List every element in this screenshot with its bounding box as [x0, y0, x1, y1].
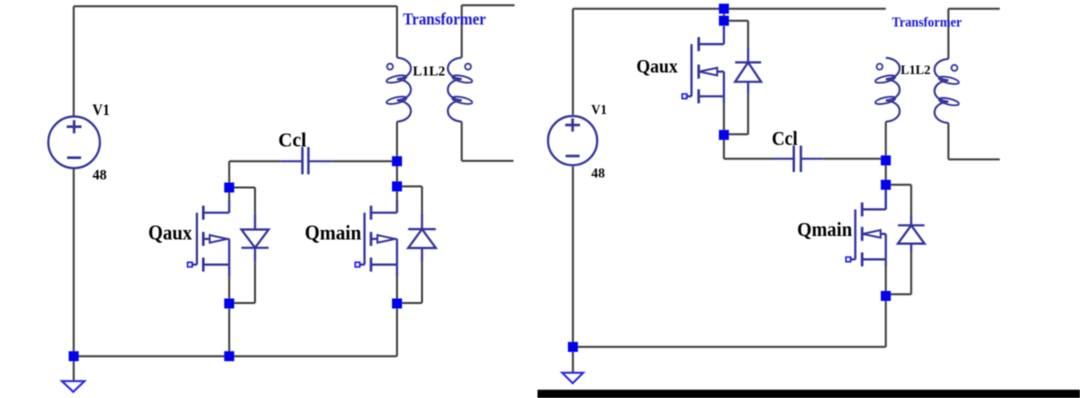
svg-text:L1L2: L1L2 [901, 62, 931, 77]
svg-text:Ccl: Ccl [278, 129, 307, 151]
svg-text:48: 48 [93, 168, 107, 184]
svg-text:Transformer: Transformer [403, 10, 486, 29]
svg-text:V1: V1 [92, 102, 109, 119]
svg-text:Qmain: Qmain [797, 219, 852, 241]
svg-text:L1L2: L1L2 [413, 64, 445, 79]
svg-text:Ccl: Ccl [772, 128, 798, 150]
svg-text:Qaux: Qaux [148, 220, 192, 244]
svg-text:48: 48 [591, 166, 605, 181]
svg-text:V1: V1 [591, 103, 607, 118]
svg-text:Qaux: Qaux [636, 56, 678, 77]
svg-text:Qmain: Qmain [305, 221, 362, 245]
svg-text:Transformer: Transformer [892, 15, 962, 30]
